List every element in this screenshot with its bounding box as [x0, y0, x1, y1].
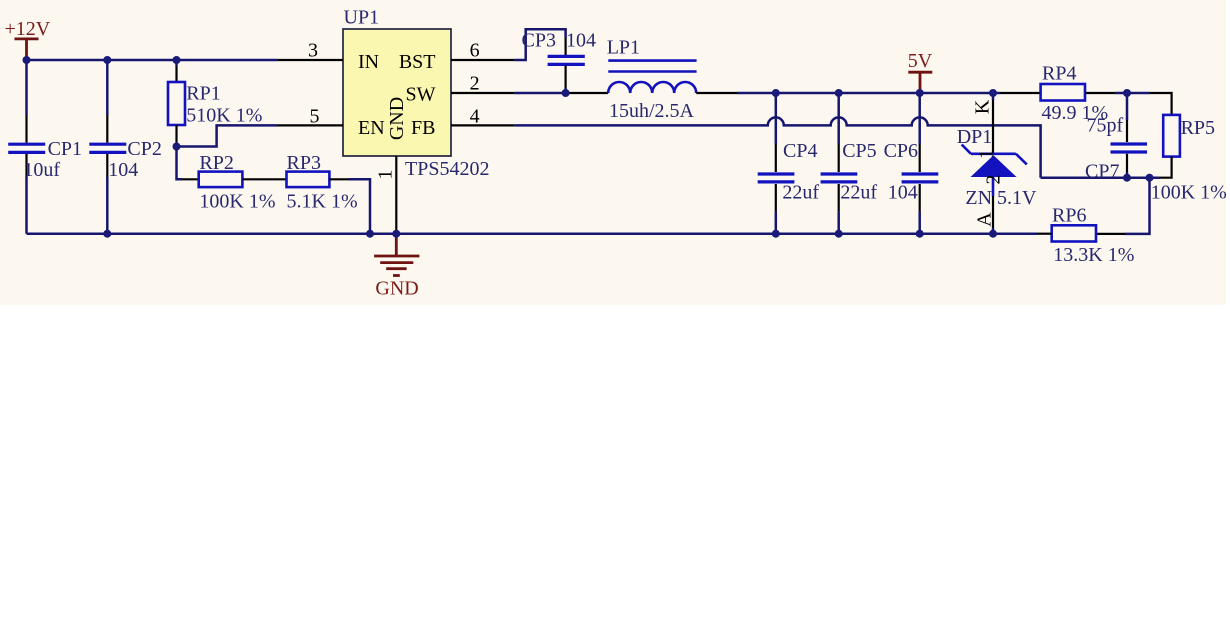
wire 5V output bus: [738, 92, 1001, 95]
svg-text:GND: GND: [386, 97, 408, 140]
junction CP5 top: [835, 89, 843, 97]
pin 3 IN: [278, 39, 379, 73]
junction DP1 anode: [989, 230, 997, 238]
svg-text:ZN 5.1V: ZN 5.1V: [965, 187, 1037, 209]
wire ground bottom bus: [27, 232, 1038, 235]
svg-text:RP5: RP5: [1181, 117, 1215, 139]
svg-text:RP2: RP2: [199, 152, 233, 174]
junction RP3 corner: [366, 230, 374, 238]
junction +12V / CP1: [23, 56, 31, 64]
svg-text:+12V: +12V: [5, 18, 51, 40]
svg-text:RP1: RP1: [186, 83, 220, 105]
resistor RP6: [1037, 225, 1096, 241]
junction CP2 bottom: [103, 230, 111, 238]
junction CP6 / 5V: [916, 89, 924, 97]
resistor RP2: [182, 172, 287, 188]
svg-text:UP1: UP1: [344, 7, 380, 29]
svg-text:RP3: RP3: [287, 152, 321, 174]
capacitor CP2: [89, 60, 126, 234]
resistor RP3: [287, 172, 349, 188]
svg-text:CP6: CP6: [884, 140, 918, 162]
wire node to RP2: [177, 147, 183, 180]
svg-text:22uf: 22uf: [840, 182, 877, 204]
svg-text:A: A: [974, 212, 996, 227]
capacitor CP4: [758, 93, 795, 234]
svg-text:TPS54202: TPS54202: [405, 158, 489, 180]
ground symbol GND: [374, 234, 419, 300]
junction CP4 bottom: [772, 230, 780, 238]
svg-text:CP2: CP2: [127, 138, 161, 160]
pin 4 FB: [411, 105, 514, 139]
svg-text:RP4: RP4: [1042, 63, 1076, 85]
junction RP6 riser / FB node: [1146, 174, 1154, 182]
junction CP7 top: [1123, 89, 1131, 97]
svg-text:SW: SW: [406, 83, 436, 105]
resistor RP1: [168, 60, 185, 147]
junction CP3 / SW: [562, 89, 570, 97]
power flag 5V: [908, 50, 933, 93]
junction DP1 cathode: [989, 89, 997, 97]
capacitor CP5: [821, 93, 858, 234]
svg-text:22uf: 22uf: [782, 182, 819, 204]
svg-text:5.1K 1%: 5.1K 1%: [287, 190, 358, 212]
svg-text:13.3K 1%: 13.3K 1%: [1053, 244, 1134, 266]
svg-text:100K 1%: 100K 1%: [199, 190, 275, 212]
resistor RP5: [1160, 115, 1180, 178]
svg-text:DP1: DP1: [957, 126, 993, 148]
svg-text:10uf: 10uf: [23, 159, 60, 181]
svg-text:104: 104: [566, 29, 596, 51]
svg-text:K: K: [972, 99, 994, 114]
junction RP1 top: [173, 56, 181, 64]
svg-text:5V: 5V: [908, 50, 933, 72]
pin 6 BST: [399, 40, 515, 73]
wire FB node line: [1041, 176, 1160, 179]
svg-text:LP1: LP1: [607, 36, 640, 58]
wire +12V top bus: [27, 59, 279, 62]
capacitor CP6: [902, 93, 939, 234]
IC U1 UP1 TPS54202 body: [343, 29, 451, 156]
svg-text:2: 2: [470, 73, 480, 95]
svg-text:3: 3: [308, 39, 318, 61]
pin 2 SW: [406, 73, 515, 106]
svg-text:4: 4: [470, 105, 480, 127]
power flag +12V: [5, 18, 51, 60]
svg-text:RP6: RP6: [1052, 205, 1086, 227]
svg-text:IN: IN: [358, 51, 379, 73]
wire FB net with hops over CP4 CP5 CP6: [514, 117, 1040, 177]
svg-text:104: 104: [108, 159, 138, 181]
wire BST to CP3 hook: [514, 29, 565, 60]
wire EN net jog: [177, 125, 279, 146]
junction CP7 bottom: [1123, 174, 1131, 182]
junction IC GND pin: [392, 230, 400, 238]
wire RP6 riser: [1125, 178, 1150, 234]
svg-text:100K 1%: 100K 1%: [1151, 181, 1227, 203]
capacitor CP1: [8, 60, 45, 234]
svg-text:GND: GND: [375, 278, 418, 300]
svg-text:CP3: CP3: [522, 29, 556, 51]
capacitor CP7: [1111, 93, 1148, 178]
svg-text:1: 1: [375, 170, 397, 180]
svg-text:EN: EN: [358, 117, 385, 139]
svg-text:1: 1: [975, 149, 997, 159]
svg-text:CP1: CP1: [48, 138, 82, 160]
junction CP2 top: [103, 56, 111, 64]
junction RP1 / EN / RP2: [173, 143, 181, 151]
junction CP4 top: [772, 89, 780, 97]
inductor LP1: [608, 61, 737, 93]
junction CP6 bottom: [916, 230, 924, 238]
svg-text:BST: BST: [399, 51, 436, 73]
junction CP5 bottom: [835, 230, 843, 238]
svg-text:2: 2: [983, 175, 1005, 185]
pin 1 GND: [375, 97, 409, 234]
svg-text:104: 104: [888, 182, 918, 204]
resistor RP4: [1041, 84, 1150, 101]
capacitor CP3: [548, 38, 585, 93]
svg-text:6: 6: [470, 40, 480, 62]
wire RP3 to ground bus: [349, 179, 371, 233]
svg-text:CP7: CP7: [1085, 161, 1119, 183]
svg-text:CP5: CP5: [842, 140, 876, 162]
wire SW node: [514, 92, 567, 95]
svg-text:5: 5: [310, 105, 320, 127]
svg-text:15uh/2.5A: 15uh/2.5A: [609, 100, 695, 122]
diode DP1 zener: [962, 93, 1027, 234]
wire bus corner to RP5 top: [1150, 93, 1172, 115]
svg-text:510K 1%: 510K 1%: [186, 105, 262, 127]
svg-text:CP4: CP4: [783, 140, 817, 162]
svg-text:75pf: 75pf: [1087, 115, 1124, 137]
svg-text:FB: FB: [411, 117, 435, 139]
pin 5 EN: [278, 105, 385, 139]
